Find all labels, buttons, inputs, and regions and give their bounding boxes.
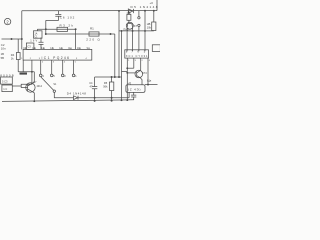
resistor R6 xyxy=(110,82,114,91)
svg-text:3: 3 xyxy=(53,62,55,64)
node junction dots left xyxy=(11,38,23,40)
pin numbers top xyxy=(23,48,88,50)
svg-text:KT: KT xyxy=(134,24,138,28)
diode D4 xyxy=(74,96,79,100)
wire VT1 collector up xyxy=(32,72,34,83)
wire from branch down to R4 xyxy=(17,39,19,72)
svg-text:5: 5 xyxy=(75,62,77,64)
wire rail drop right xyxy=(144,11,146,31)
svg-text:5: 5 xyxy=(144,51,146,54)
node dot right bus xyxy=(147,84,149,86)
wire base link xyxy=(127,72,135,74)
wire C6 elbow down xyxy=(46,16,59,34)
node dots mid bus xyxy=(111,76,120,78)
svg-text:(Z 4Э): (Z 4Э) xyxy=(128,87,141,91)
svg-text:1k: 1k xyxy=(11,56,14,60)
node dots on bottom rail xyxy=(33,99,128,102)
wire left vertical bus xyxy=(21,11,23,50)
node junction dot bus xyxy=(31,71,33,73)
wire rail end up xyxy=(156,0,158,11)
capacitor C6 xyxy=(55,14,61,16)
wire switch to D4 run xyxy=(54,92,129,97)
svg-text:4: 4 xyxy=(149,60,151,62)
node junction dots row A xyxy=(45,28,77,35)
svg-text:S1: S1 xyxy=(53,83,57,86)
resistor R3 xyxy=(57,27,68,31)
svg-text:D5 1N4148: D5 1N4148 xyxy=(131,5,158,9)
svg-text:2: 2 xyxy=(6,19,9,24)
svg-text:1 C: 1 C xyxy=(3,87,7,91)
node dots on D4 run xyxy=(94,97,113,102)
pin numbers below XS1 xyxy=(128,60,151,62)
node dots pin8 line xyxy=(126,67,128,74)
wire row B xyxy=(46,33,115,35)
wire box link xyxy=(12,85,21,87)
svg-text:Щк: Щк xyxy=(147,79,152,83)
wire cap C7 drop xyxy=(94,77,96,101)
svg-text:5 C3: 5 C3 xyxy=(2,79,8,83)
capacitor C8 xyxy=(131,92,136,100)
wire left horizontal branch xyxy=(2,38,22,40)
resistor R8 10k xyxy=(127,14,131,20)
svg-text:4: 4 xyxy=(64,62,66,64)
IC bottom pin stubs xyxy=(23,60,73,74)
node dots row C xyxy=(121,30,146,32)
transistor Q2 xyxy=(135,70,143,78)
wire bottom ground rail xyxy=(2,100,134,102)
capacitor C7 xyxy=(92,87,97,89)
ground plate bar xyxy=(20,73,28,75)
pin contact circles xyxy=(39,74,42,77)
svg-text:5B: 5B xyxy=(1,56,4,60)
wire R6 drop xyxy=(111,77,113,101)
wire stub row C to pin8 column xyxy=(122,71,128,73)
svg-text:1: 1 xyxy=(128,60,130,62)
svg-text:C3: C3 xyxy=(27,45,31,49)
connector XS1 box xyxy=(125,50,149,58)
capacitor C5 xyxy=(39,38,44,50)
svg-text:2014: 2014 xyxy=(37,85,43,88)
svg-text:IC1 PQ246: IC1 PQ246 xyxy=(42,56,70,60)
wire base feed Z-bend xyxy=(21,72,32,88)
transistor VT1 xyxy=(26,83,35,92)
resistor R1 xyxy=(89,32,99,36)
component box BA1 xyxy=(1,77,13,84)
wire long right vertical xyxy=(121,31,123,100)
pin numbers in XS1 xyxy=(126,51,146,54)
pin labels at circles xyxy=(42,75,77,78)
svg-text:10k: 10k xyxy=(147,26,152,30)
capacitor C6 stub from rail xyxy=(57,11,59,14)
svg-text:2: 2 xyxy=(142,60,144,62)
node junction R1 out xyxy=(110,33,112,35)
svg-text:220 Ω: 220 Ω xyxy=(86,38,100,42)
component box X1 xyxy=(2,85,12,92)
wire VT1 emitter down xyxy=(33,92,35,101)
capacitor C3 box xyxy=(26,43,34,49)
resistor R7 xyxy=(152,22,156,31)
svg-text:2: 2 xyxy=(42,62,44,64)
wire Q2 collector xyxy=(139,69,141,72)
wire drop row A to IC pin xyxy=(75,29,77,49)
wire row B end down xyxy=(114,34,116,77)
connector contact circles X1 xyxy=(138,11,140,31)
wire pins into XS1 xyxy=(127,31,145,50)
svg-text:1: 1 xyxy=(75,75,77,78)
IC top pin stubs xyxy=(26,48,89,50)
relay box K1 xyxy=(126,85,145,93)
op-amp IC1 box xyxy=(23,49,92,60)
svg-text:R1: R1 xyxy=(90,26,94,30)
svg-text:C6 102: C6 102 xyxy=(60,16,75,20)
switch SA1 lever xyxy=(41,77,54,90)
svg-text:16V: 16V xyxy=(30,39,37,43)
svg-text:3: 3 xyxy=(135,60,137,62)
svg-text:D4 1N4148: D4 1N4148 xyxy=(67,92,86,96)
svg-text:8: 8 xyxy=(126,51,128,54)
wire K1 left drop to D4 run xyxy=(128,92,130,97)
wire top supply rail xyxy=(22,10,157,12)
node dots on rail xyxy=(118,10,155,12)
wire pins below XS1 xyxy=(127,58,148,100)
wire mid bottom bus xyxy=(95,76,122,78)
connector box right edge xyxy=(152,45,160,52)
wire right drop from rail xyxy=(118,11,120,77)
svg-text:1B: 1B xyxy=(1,52,4,56)
resistor R4 xyxy=(16,53,20,60)
LED resistor branch xyxy=(153,11,155,22)
zener box VD1 xyxy=(36,29,38,31)
svg-text:2: 2 xyxy=(64,75,66,78)
wire right row C xyxy=(119,30,154,32)
svg-text:ПAB: ПAB xyxy=(123,28,128,31)
svg-text:3: 3 xyxy=(39,58,41,60)
switch contact circle xyxy=(53,90,55,92)
svg-text:VT2: VT2 xyxy=(142,72,147,75)
svg-text:R4: R4 xyxy=(11,53,15,57)
svg-text:5: 5 xyxy=(53,75,55,78)
wire Q2 emitter down xyxy=(141,78,142,85)
node figure label circled 2 xyxy=(4,18,10,24)
svg-text:4: 4 xyxy=(42,75,44,78)
pin numbers bottom xyxy=(21,58,87,64)
svg-text:XC1 CY031: XC1 CY031 xyxy=(126,54,148,58)
transistor Q1 xyxy=(126,22,133,29)
wire bottom-left bus xyxy=(18,71,34,73)
wire link pins xyxy=(127,67,134,69)
wire row A xyxy=(37,28,75,30)
wire R8 top stub xyxy=(128,11,130,14)
svg-text:10n: 10n xyxy=(1,47,6,51)
wire right bottom bus xyxy=(145,84,158,86)
svg-text:R3 2k: R3 2k xyxy=(60,23,74,27)
svg-text:56k: 56k xyxy=(103,84,108,88)
svg-text:HB: HB xyxy=(147,22,151,26)
svg-text:+Q: +Q xyxy=(128,81,132,85)
svg-text:2: 2 xyxy=(30,58,32,60)
svg-text:7: 7 xyxy=(131,51,133,54)
diode D5 on rail xyxy=(128,9,133,13)
